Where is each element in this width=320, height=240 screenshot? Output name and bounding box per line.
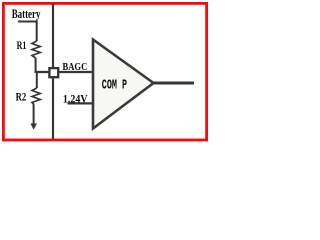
svg-text:1.24V: 1.24V — [63, 93, 88, 106]
wire comparator output — [153, 82, 194, 85]
wire battery to R1 — [18, 22, 37, 42]
junction node — [49, 68, 58, 77]
svg-text:COM P: COM P — [102, 78, 127, 94]
resistor R2 — [32, 88, 40, 105]
svg-text:Battery: Battery — [12, 8, 41, 22]
svg-text:R1: R1 — [17, 40, 27, 53]
wire R2 to arrow — [33, 105, 35, 125]
wire R2 top lead — [36, 72, 38, 88]
power rail wire — [52, 4, 54, 139]
svg-text:BAGC: BAGC — [63, 61, 88, 73]
wire node to comparator BAGC net — [35, 71, 93, 73]
wire R1 bottom lead — [35, 58, 37, 72]
svg-text:R2: R2 — [16, 91, 27, 103]
current arrow down — [30, 124, 37, 130]
op-amp comparator COMP — [93, 40, 154, 129]
resistor R1 — [32, 41, 40, 58]
wire 1.24V reference input — [68, 102, 94, 104]
